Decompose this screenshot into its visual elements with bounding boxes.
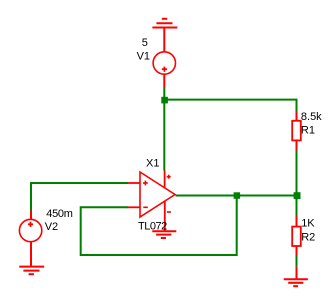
svg-text:5: 5 — [142, 37, 148, 49]
op-amp X1 — [127, 171, 175, 232]
ground GND4 (below R2) — [284, 267, 308, 287]
node C junction — [294, 192, 301, 199]
ground GND3 (below V2) — [19, 267, 44, 275]
node A junction — [161, 97, 168, 104]
node B junction — [234, 192, 241, 199]
+ supply marker — [167, 175, 171, 179]
svg-text:1K: 1K — [301, 218, 315, 230]
svg-text:8.5k: 8.5k — [301, 111, 322, 123]
wire V1 to node A — [163, 87, 165, 100]
op-amp triangle body — [140, 172, 175, 217]
pin + input lead — [127, 182, 140, 184]
+ input marker — [143, 181, 148, 186]
voltage source V1 — [153, 52, 175, 87]
svg-text:V1: V1 — [137, 50, 150, 62]
pin - input lead — [127, 206, 140, 208]
wire V+ supply (node A down to op-amp) — [163, 100, 165, 171]
resistor R1 — [292, 111, 301, 151]
wire R2 to ground lead — [296, 256, 298, 267]
pin V- supply — [164, 201, 166, 231]
resistor R2 — [292, 216, 301, 256]
wire feedback loop (node B to inverting input) — [81, 196, 237, 256]
wire op-amp output to node C — [176, 195, 299, 197]
svg-text:450m: 450m — [46, 208, 72, 220]
wire R1 to node C — [296, 151, 298, 197]
pin V+ supply — [164, 171, 166, 189]
svg-text:R1: R1 — [301, 125, 315, 137]
wire V2 to non-inverting input — [31, 183, 128, 211]
svg-text:R2: R2 — [301, 231, 315, 243]
wire node C down to R2 — [296, 196, 298, 217]
voltage source V2 — [19, 211, 41, 267]
ground GND2 (below op-amp V- pin) — [152, 231, 176, 238]
- supply marker — [167, 211, 171, 213]
ground GND1 (inverted, above V1) — [152, 19, 177, 52]
svg-text:V2: V2 — [45, 221, 58, 233]
wire node A to R1 (top rail) — [164, 100, 296, 111]
- input marker — [143, 206, 148, 208]
svg-text:X1: X1 — [146, 158, 159, 170]
